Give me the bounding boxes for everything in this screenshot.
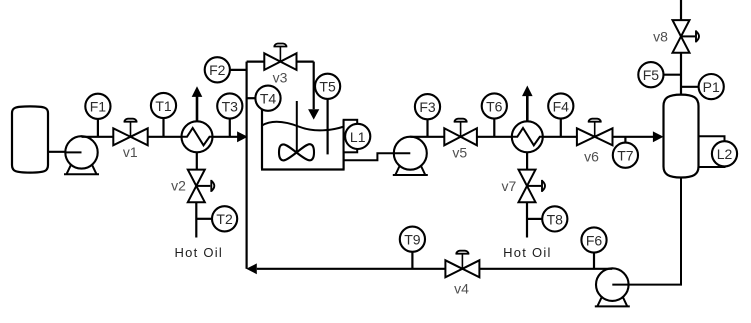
valve v1 (control valve, horizontal): [113, 119, 147, 146]
svg-text:F1: F1: [90, 99, 107, 115]
wire F6 tap: [593, 252, 595, 268]
svg-text:L2: L2: [717, 146, 733, 162]
valve v5 (control valve, horizontal): [444, 119, 477, 146]
wire HX2 to valve v7: [526, 152, 528, 170]
svg-text:F2: F2: [209, 62, 226, 78]
instrument F4: [548, 93, 573, 118]
heat exchanger HX2: [512, 121, 543, 152]
svg-text:v2: v2: [171, 178, 186, 194]
wire HX2 outlet to valve v6: [543, 136, 577, 138]
svg-text:F5: F5: [643, 67, 660, 83]
svg-text:Hot Oil: Hot Oil: [175, 245, 223, 260]
svg-text:T2: T2: [216, 211, 233, 227]
instrument T3: [217, 93, 242, 118]
wire T7 tap: [624, 137, 626, 143]
svg-text:v8: v8: [653, 28, 668, 44]
wire pump P-2 discharge: [410, 136, 444, 138]
feed tank TK1: [12, 106, 48, 172]
wire T5 dip tube: [327, 99, 329, 155]
svg-text:T1: T1: [155, 98, 172, 114]
wire HX1 outlet to riser: [213, 136, 239, 138]
arrow feed into mixer riser: [237, 131, 248, 142]
svg-text:v1: v1: [123, 144, 138, 160]
svg-text:T3: T3: [222, 98, 239, 114]
pump P-2: [393, 137, 428, 175]
wire recycle line: [257, 268, 613, 270]
valve v3 (control valve, horizontal): [264, 44, 296, 70]
svg-text:Hot Oil: Hot Oil: [503, 245, 551, 260]
arrow up HX2 vent: [522, 86, 533, 122]
instrument F6: [581, 227, 606, 252]
arrow recycle into riser: [246, 263, 257, 274]
level gauge bracket L1: [344, 120, 358, 153]
svg-text:F4: F4: [553, 98, 570, 114]
svg-text:F3: F3: [419, 99, 436, 115]
instrument P1: [699, 74, 724, 99]
wire F1 tap: [97, 119, 99, 137]
heat exchanger HX1: [182, 121, 213, 152]
wire valve v2 hot oil line: [195, 202, 197, 237]
wire separator bottoms: [629, 178, 681, 285]
pump P-3: [595, 268, 630, 306]
wire valve v1 to heat exchanger HX1: [148, 136, 182, 138]
wire valve v8 to separator top: [680, 53, 682, 95]
instrument T7: [613, 143, 638, 168]
wire riser top to valve v3: [247, 60, 265, 62]
level gauge L2 taps: [699, 136, 725, 167]
wire F3 tap: [426, 119, 428, 137]
wire tank1 to pump P1 inlet: [48, 151, 82, 153]
svg-text:T9: T9: [404, 232, 421, 248]
wire T4 tap: [247, 97, 256, 99]
wire T6 tap: [493, 119, 495, 137]
wire F4 tap: [560, 119, 562, 137]
agitator shaft: [296, 101, 298, 153]
arrow down feed into mixer: [308, 109, 319, 119]
instrument T5: [315, 74, 340, 99]
pump P-1: [64, 136, 99, 174]
valve v6 (control valve, horizontal): [577, 119, 613, 146]
svg-text:v5: v5: [452, 144, 467, 160]
instrument F1: [85, 94, 110, 119]
instrument F2: [205, 57, 230, 82]
wire P1 tap: [681, 86, 699, 88]
wire valve v3 to downcomer: [297, 60, 314, 62]
instrument T2: [212, 206, 237, 231]
instrument L1: [345, 124, 370, 149]
valve v7 (vertical, side handwheel): [519, 170, 546, 203]
valve v8 (vertical, side handwheel): [673, 20, 700, 53]
svg-text:T5: T5: [319, 79, 336, 95]
wire T2 tap: [197, 218, 213, 220]
instrument T4: [255, 86, 280, 111]
wire pump P-1 discharge to valve v1: [82, 136, 114, 138]
svg-text:T8: T8: [547, 211, 564, 227]
instrument L2: [712, 141, 737, 166]
wire mixer outlet to pump P-2: [344, 153, 411, 160]
separator vessel V-1: [664, 95, 699, 178]
svg-text:v3: v3: [273, 70, 288, 86]
wire T3 tap: [229, 119, 231, 137]
valve v4 (control valve, horizontal): [445, 251, 479, 278]
svg-text:F6: F6: [586, 232, 603, 248]
wire mixer feed riser: [246, 62, 248, 269]
wire F2 tap: [230, 69, 247, 71]
instrument F3: [415, 94, 440, 119]
instrument T6: [482, 93, 507, 118]
svg-text:v7: v7: [502, 178, 517, 194]
wire T8 tap: [527, 218, 543, 220]
instrument F5: [638, 62, 663, 87]
wire T9 tap: [411, 252, 413, 269]
svg-text:P1: P1: [703, 79, 720, 95]
svg-text:v4: v4: [454, 281, 469, 297]
svg-text:T7: T7: [617, 148, 634, 164]
arrow up HX1 vent: [192, 86, 203, 121]
liquid surface wave: [262, 122, 344, 131]
svg-text:T4: T4: [260, 91, 277, 107]
arrow feed into separator: [653, 131, 664, 142]
wire T1 tap: [162, 118, 164, 137]
wire F5 tap: [664, 74, 682, 76]
instrument T8: [542, 206, 567, 231]
instrument T1: [151, 93, 176, 118]
wire downcomer into mixer: [313, 62, 315, 110]
agitator impeller: [279, 144, 314, 160]
wire overhead line to valve v8: [680, 0, 682, 21]
wire valve v6 to separator: [613, 136, 655, 138]
instrument T9: [400, 227, 425, 252]
valve v2 (vertical, side handwheel): [188, 170, 215, 203]
mixing tank TK2 walls: [261, 100, 345, 170]
svg-text:L1: L1: [350, 129, 366, 145]
wire HX1 to valve v2: [196, 152, 198, 170]
wire valve v5 to HX2: [477, 136, 513, 138]
wire valve v7 hot oil line: [526, 202, 528, 237]
svg-text:T6: T6: [486, 98, 503, 114]
svg-text:v6: v6: [584, 149, 599, 165]
